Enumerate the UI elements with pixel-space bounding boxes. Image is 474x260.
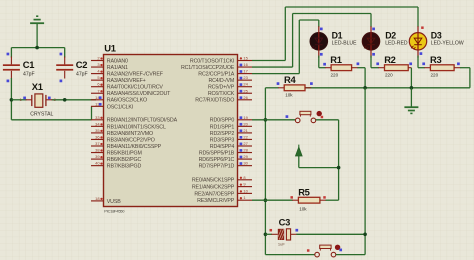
LED D3 (lit) — [409, 26, 426, 58]
svg-text:RE3/MCLR/VPP: RE3/MCLR/VPP — [197, 198, 235, 204]
C3 pin state markers — [270, 229, 299, 232]
svg-text:LED-YELLOW: LED-YELLOW — [431, 41, 464, 47]
svg-text:16: 16 — [243, 62, 248, 67]
D3 pin state markers — [420, 26, 424, 55]
push button (RD0-VCC) — [295, 111, 321, 123]
svg-text:21: 21 — [243, 128, 248, 133]
U1 left pin numbers — [95, 56, 100, 201]
svg-text:RA6/OSC2/CLKO: RA6/OSC2/CLKO — [107, 98, 147, 104]
svg-text:RB4/AN11/KBI0/CSSPP: RB4/AN11/KBI0/CSSPP — [107, 144, 162, 150]
ground (rail) — [404, 88, 418, 114]
svg-text:47pF: 47pF — [76, 72, 88, 78]
svg-text:RA5/AN4/SS/LVDIN/C2OUT: RA5/AN4/SS/LVDIN/C2OUT — [107, 91, 171, 97]
U1 pin state markers — [99, 57, 242, 200]
btn1 pin state markers — [286, 115, 324, 118]
wire RC2 to D1 — [252, 20, 319, 74]
svg-text:RB2/AN8/INT2/VMO: RB2/AN8/INT2/VMO — [107, 131, 153, 137]
junction C2/crystal pin2 — [63, 98, 67, 102]
svg-text:RB1/AN10/INT1/SCK/SCL: RB1/AN10/INT1/SCK/SCL — [107, 124, 166, 130]
svg-text:RD4/SPP4: RD4/SPP4 — [210, 144, 235, 150]
svg-text:40: 40 — [95, 161, 100, 166]
svg-text:RC1/T1OSI/CCP2/UOE: RC1/T1OSI/CCP2/UOE — [181, 65, 235, 71]
svg-text:X1: X1 — [32, 81, 43, 92]
junction node A / RD0 wire — [264, 118, 268, 122]
svg-text:33: 33 — [95, 115, 100, 120]
power VCC terminal — [295, 145, 302, 168]
svg-text:RE2/AN7/OESPP: RE2/AN7/OESPP — [194, 191, 234, 197]
svg-text:RB0/AN12/INT0/FLT0/SDI/SDA: RB0/AN12/INT0/FLT0/SDI/SDA — [107, 118, 178, 124]
R4 pin state markers — [277, 82, 313, 85]
wire button to VCC column — [316, 120, 339, 200]
svg-text:36: 36 — [95, 134, 100, 139]
svg-text:R2: R2 — [384, 54, 395, 65]
svg-text:47pF: 47pF — [23, 72, 35, 78]
svg-text:28: 28 — [243, 148, 248, 153]
wire C3 to node B — [296, 233, 365, 235]
svg-text:26: 26 — [243, 95, 248, 100]
svg-text:C1: C1 — [23, 59, 34, 70]
svg-text:R4: R4 — [284, 74, 296, 85]
R2 pin state markers — [376, 62, 412, 65]
R3 pin state markers — [422, 62, 459, 65]
R5 pin state markers — [290, 196, 325, 199]
X1 pin state markers — [23, 97, 50, 100]
btn2 pin state markers — [307, 249, 342, 252]
svg-text:220: 220 — [385, 72, 393, 77]
crystal X1 — [26, 94, 53, 107]
wire C1 down to OSC1 net — [11, 78, 91, 120]
capacitor C2 — [56, 48, 73, 79]
resistor R4 — [265, 85, 311, 91]
svg-text:RD6/SPP6/P1C: RD6/SPP6/P1C — [199, 157, 235, 163]
capacitor C3 — [272, 229, 297, 240]
C1 pin state markers — [7, 53, 10, 83]
resistor R5 — [292, 197, 326, 203]
svg-text:RA0/AN0: RA0/AN0 — [107, 58, 128, 64]
svg-text:R3: R3 — [430, 54, 441, 65]
junction node A / R5 wire — [264, 198, 268, 202]
junction C1/crystal pin1 — [10, 98, 14, 102]
svg-text:220: 220 — [331, 72, 339, 77]
svg-text:VUSB: VUSB — [107, 199, 121, 205]
junction node A / C3 wire — [264, 233, 268, 237]
svg-text:RC6/TX/CK: RC6/TX/CK — [208, 91, 235, 97]
svg-text:RD5/SPP5/P1B: RD5/SPP5/P1B — [199, 150, 235, 156]
wire RE3/MCLR to R5 — [252, 199, 293, 201]
svg-text:RB7/KBI3/PGD: RB7/KBI3/PGD — [107, 164, 142, 170]
R1 pin state markers — [323, 62, 359, 65]
wire ground rail — [305, 87, 470, 89]
svg-text:C3: C3 — [279, 216, 290, 227]
svg-text:35: 35 — [95, 128, 100, 133]
wire reset button to node B — [336, 254, 365, 256]
U1 left pin stubs — [91, 61, 104, 201]
svg-text:RA3/AN3/VREF+: RA3/AN3/VREF+ — [107, 78, 146, 84]
push button (reset) — [315, 245, 340, 257]
U1 right pin names — [181, 58, 235, 204]
svg-text:27: 27 — [243, 141, 248, 146]
svg-text:24: 24 — [243, 82, 248, 87]
svg-text:25: 25 — [243, 88, 248, 93]
svg-text:RC7/RX/DT/SDO: RC7/RX/DT/SDO — [195, 98, 234, 104]
resistor R2 — [378, 65, 411, 71]
svg-text:LED-BLUE: LED-BLUE — [332, 41, 358, 47]
wire D2 to R2 — [371, 56, 379, 68]
wire node A vertical (MCLR net) — [264, 88, 266, 255]
op chip U1 body — [104, 55, 238, 207]
wire top (C1-C2-ground) — [11, 47, 64, 49]
wire D1 to R1 — [319, 56, 326, 68]
svg-text:RC4/D-/VM: RC4/D-/VM — [208, 78, 234, 84]
svg-text:39: 39 — [95, 154, 100, 159]
junction rail/ground — [410, 86, 414, 90]
svg-text:22: 22 — [243, 134, 248, 139]
svg-text:R5: R5 — [298, 186, 309, 197]
U1 right pin stubs — [238, 61, 253, 201]
svg-text:1uF: 1uF — [278, 242, 285, 247]
svg-text:D1: D1 — [332, 30, 343, 40]
svg-text:RD3/SPP3: RD3/SPP3 — [210, 137, 235, 143]
svg-text:C2: C2 — [76, 59, 87, 70]
svg-text:220: 220 — [431, 72, 439, 77]
svg-text:15: 15 — [243, 56, 248, 61]
svg-text:RC5/D+/VP: RC5/D+/VP — [208, 85, 235, 91]
svg-text:CRYSTAL: CRYSTAL — [30, 111, 53, 117]
wire node A to C3 — [265, 233, 272, 235]
LED D2 — [362, 26, 379, 58]
wire R1 to ground rail — [358, 68, 366, 88]
svg-text:RE0/AN5/CK1SPP: RE0/AN5/CK1SPP — [192, 178, 235, 184]
svg-text:R1: R1 — [330, 54, 341, 65]
svg-text:RE1/AN6/CK2SPP: RE1/AN6/CK2SPP — [192, 185, 235, 191]
svg-text:10k: 10k — [285, 92, 293, 97]
svg-text:RD0/SPP0: RD0/SPP0 — [210, 118, 235, 124]
wire RD0 to button — [252, 119, 295, 121]
resistor R3 — [424, 65, 460, 71]
svg-text:RA2/AN2/VREF-/CVREF: RA2/AN2/VREF-/CVREF — [107, 72, 164, 78]
U1 right pin numbers — [243, 56, 248, 201]
svg-text:19: 19 — [243, 115, 248, 120]
svg-text:OSC1/CLKI: OSC1/CLKI — [107, 104, 133, 110]
svg-text:23: 23 — [243, 75, 248, 80]
U1 left pin names — [107, 58, 178, 204]
svg-text:10k: 10k — [299, 207, 307, 212]
capacitor C1 — [3, 48, 20, 79]
svg-text:30: 30 — [243, 161, 248, 166]
wire R3 to ground rail — [460, 68, 470, 88]
wire node B vertical (to ground rail) — [364, 88, 366, 255]
svg-text:RC0/T1OSO/T1CKI: RC0/T1OSO/T1CKI — [190, 58, 234, 64]
wire RC0 to D3 — [252, 7, 418, 61]
svg-text:D3: D3 — [431, 30, 442, 40]
svg-text:29: 29 — [243, 154, 248, 159]
wire node A to reset button — [265, 254, 314, 256]
junction node B / C3 wire — [363, 233, 367, 237]
ground — [30, 16, 44, 47]
svg-text:38: 38 — [95, 148, 100, 153]
wire R2 to ground — [410, 68, 412, 88]
wire RC1 to D2 — [252, 14, 371, 68]
D1 pin state markers — [320, 28, 323, 56]
svg-text:RB6/KBI2/PGC: RB6/KBI2/PGC — [107, 157, 142, 163]
svg-text:PIC18F4550: PIC18F4550 — [104, 209, 125, 214]
svg-text:U1: U1 — [104, 43, 115, 54]
wire crystal pin1 — [11, 99, 26, 101]
resistor R1 — [325, 65, 358, 71]
svg-text:RD7/SPP7/P1D: RD7/SPP7/P1D — [199, 164, 235, 170]
svg-text:RA4/T0CKI/C1OUT/RCV: RA4/T0CKI/C1OUT/RCV — [107, 85, 164, 91]
svg-text:RD2/SPP2: RD2/SPP2 — [210, 131, 235, 137]
LED D1 — [310, 26, 327, 58]
junction ground/top wire — [35, 46, 39, 50]
wire crystal pin2 to OSC2 — [52, 99, 97, 101]
svg-text:RD1/SPP1: RD1/SPP1 — [210, 124, 235, 130]
svg-text:18: 18 — [95, 196, 100, 201]
svg-text:RA1/AN1: RA1/AN1 — [107, 65, 128, 71]
svg-text:17: 17 — [243, 69, 248, 74]
C2 pin state markers — [60, 53, 63, 83]
svg-text:34: 34 — [95, 121, 100, 126]
svg-text:RC2/CCP1/P1A: RC2/CCP1/P1A — [198, 72, 234, 78]
junction VCC/button/R5 — [337, 166, 341, 170]
svg-text:10: 10 — [243, 188, 248, 193]
svg-text:LED-RED: LED-RED — [385, 41, 408, 47]
svg-text:RB5/KBI1/PGM: RB5/KBI1/PGM — [107, 150, 142, 156]
svg-text:20: 20 — [243, 121, 248, 126]
svg-text:RB3/AN9/CCP2/VPO: RB3/AN9/CCP2/VPO — [107, 137, 155, 143]
wire R5 to VCC column — [326, 199, 339, 201]
junction rail/R1 column — [363, 86, 367, 90]
wire D3 to R3 — [418, 56, 425, 68]
svg-text:37: 37 — [95, 141, 100, 146]
svg-text:D2: D2 — [385, 30, 396, 40]
D2 pin state markers — [372, 28, 375, 56]
wire VCC to node — [299, 167, 339, 169]
